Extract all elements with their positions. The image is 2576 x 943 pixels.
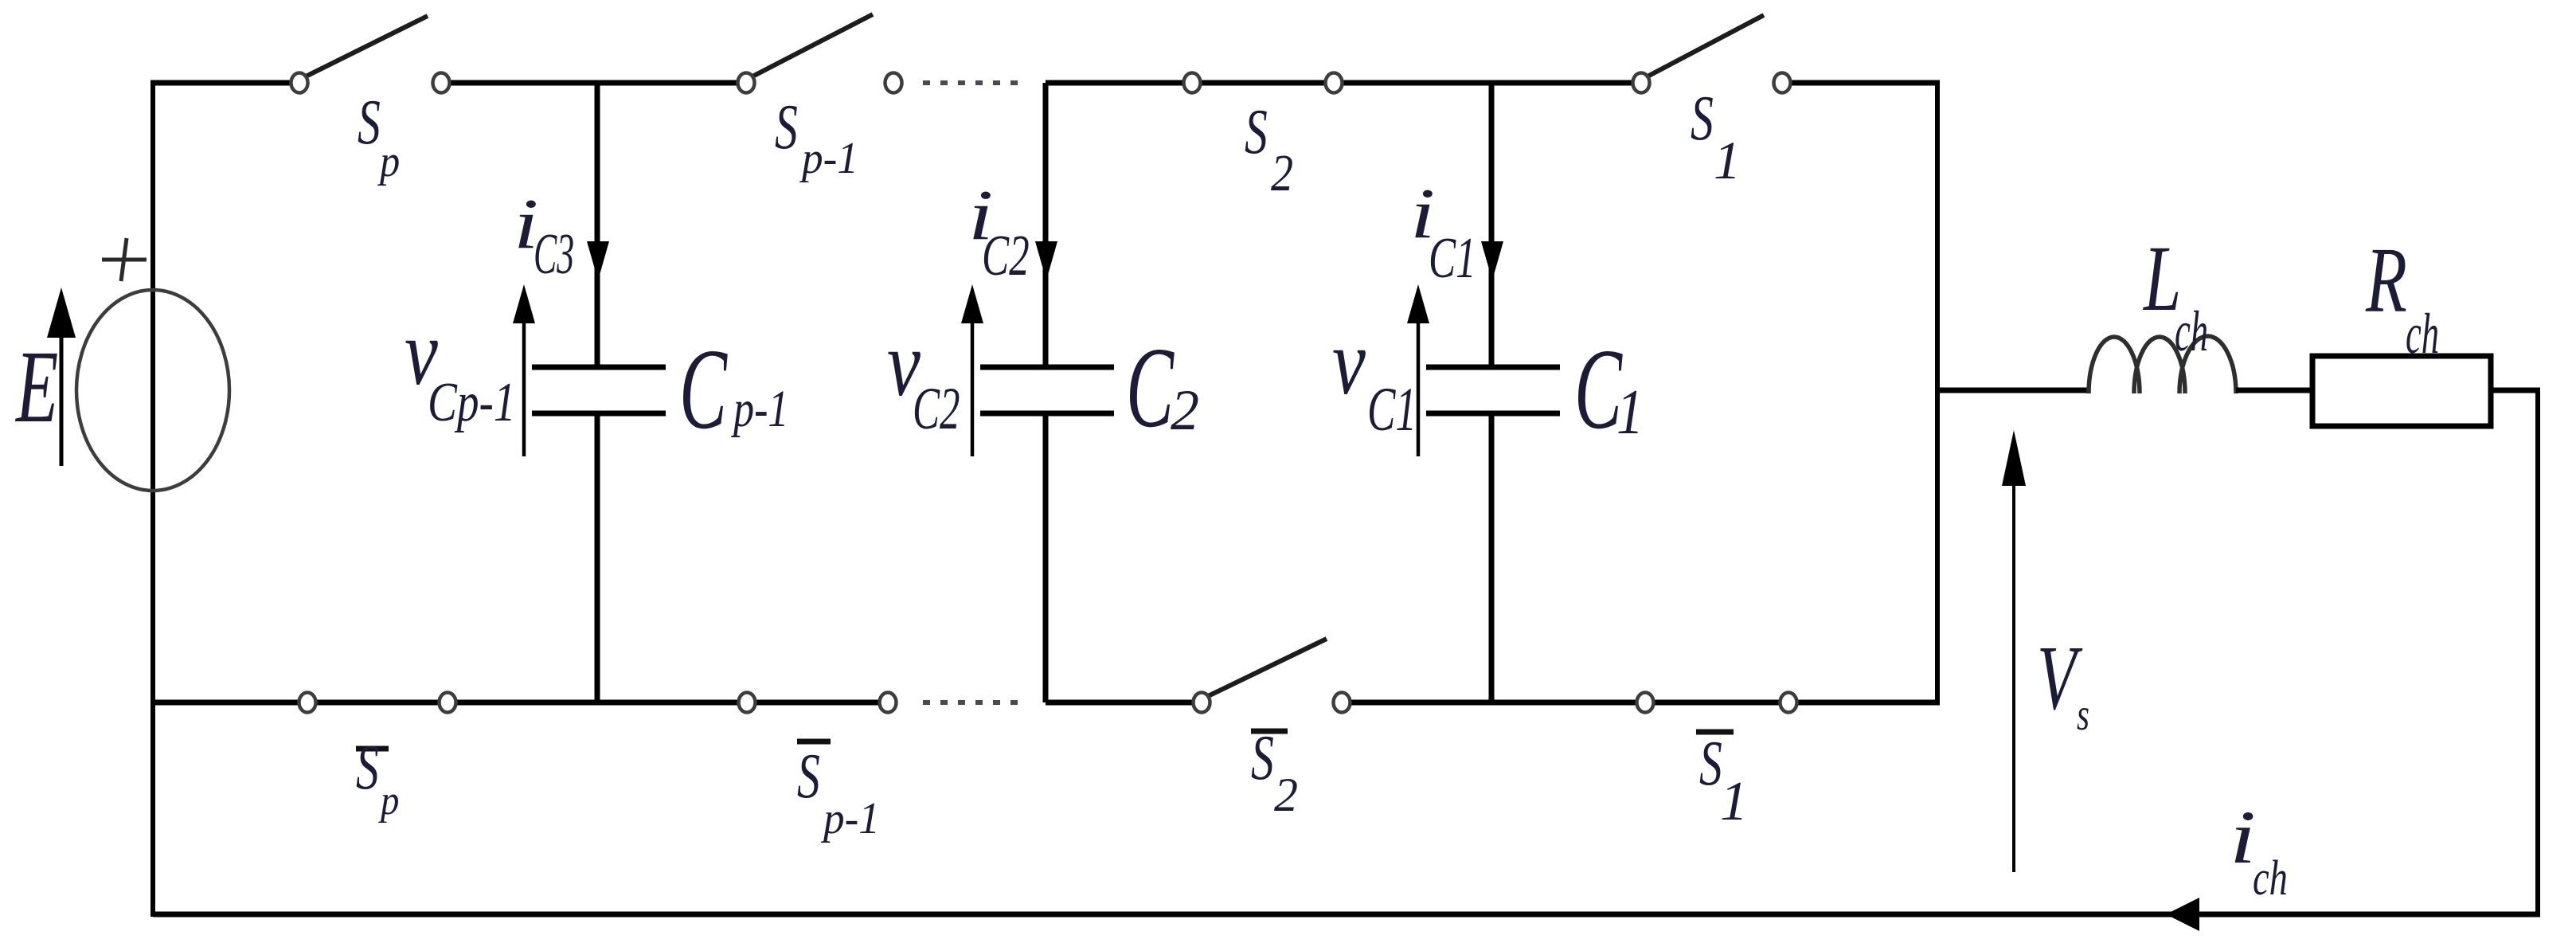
svg-text:Cp-1: Cp-1: [428, 371, 516, 433]
label S2bar (bottom): [1251, 723, 1298, 821]
svg-text:V: V: [2037, 627, 2083, 730]
svg-text:v: v: [1332, 311, 1366, 414]
arrow Vs (output voltage, upward): [2002, 430, 2026, 872]
label Vs: [2037, 627, 2089, 740]
plus sign of source E: [102, 238, 147, 281]
arrow vC2 (capacitor voltage, upward): [961, 284, 983, 456]
switch S2 (top rail): [1184, 73, 1343, 93]
svg-text:S: S: [775, 92, 798, 162]
switch Sp (top rail): [291, 16, 450, 93]
svg-text:1: 1: [1720, 771, 1748, 832]
svg-text:p: p: [377, 137, 400, 186]
label C1: [1574, 327, 1644, 454]
wire right cell edge vertical: [1935, 80, 1940, 705]
wire capacitor Cp-1 branch lower: [595, 413, 600, 702]
capacitor C1 plates: [1426, 367, 1560, 413]
wire top rail segment (Sp to Sp-1): [441, 80, 746, 86]
label Sp-1bar (bottom): [797, 741, 880, 843]
wire capacitor Cp-1 branch upper: [595, 83, 600, 367]
capacitor C2 plates: [980, 367, 1114, 413]
svg-text:ch: ch: [2253, 851, 2288, 906]
wire capacitor C1 branch lower: [1489, 413, 1495, 702]
svg-text:C1: C1: [1429, 225, 1476, 290]
svg-text:S: S: [1699, 729, 1722, 799]
label S2 (top): [1245, 97, 1293, 202]
switch S2bar (bottom rail): [1194, 639, 1351, 713]
svg-text:C: C: [679, 327, 728, 454]
switch Spbar (bottom rail): [299, 693, 456, 713]
svg-text:S: S: [797, 741, 820, 812]
svg-text:R: R: [2365, 229, 2407, 333]
svg-text:C3: C3: [534, 222, 574, 287]
wire inductor to resistor: [2236, 388, 2312, 393]
wire resistor to far right corner: [2491, 388, 2540, 393]
arrow vC1 (capacitor voltage, upward): [1407, 284, 1429, 456]
label Sp-1 (top): [775, 92, 858, 182]
label Sp (top): [358, 88, 400, 186]
svg-text:1: 1: [1616, 378, 1644, 448]
switch Sp-1bar (bottom rail): [739, 693, 897, 713]
label E: [14, 329, 58, 444]
label Cp-1: [679, 327, 789, 454]
arrow vCp-1 (capacitor voltage, upward): [513, 284, 535, 456]
wire capacitor C2 branch upper: [1043, 83, 1049, 367]
svg-text:E: E: [14, 329, 58, 444]
svg-text:S: S: [356, 733, 379, 803]
label Rch: [2365, 229, 2439, 366]
label ich: [2230, 796, 2288, 906]
label vCp-1: [405, 301, 516, 432]
svg-text:C: C: [1574, 327, 1623, 454]
svg-text:2: 2: [1271, 144, 1293, 202]
wire bottom rail segment (S2bar to right corner): [1342, 700, 1940, 706]
svg-text:s: s: [2077, 690, 2089, 740]
wire capacitor C2 branch lower: [1043, 413, 1049, 702]
svg-text:ch: ch: [2175, 299, 2208, 362]
wire bottom rail dotted continuation: [923, 700, 1022, 705]
label iC2: [968, 175, 1030, 288]
svg-text:p-1: p-1: [820, 793, 880, 843]
label S1bar (bottom): [1696, 729, 1748, 832]
label iC3: [514, 184, 574, 286]
label vC1: [1332, 311, 1417, 444]
voltage source E (ellipse): [76, 290, 229, 491]
arrow iC2 (branch current, downward): [1035, 241, 1057, 280]
switch Sp-1 (top rail): [738, 14, 902, 93]
svg-text:p-1: p-1: [730, 379, 788, 437]
svg-text:i: i: [2230, 796, 2256, 879]
svg-text:2: 2: [1171, 378, 1199, 442]
arrow iC1 (branch current, downward): [1481, 241, 1503, 280]
svg-text:S: S: [1691, 84, 1714, 154]
wire output node to inductor: [1937, 388, 2089, 393]
label C2: [1126, 325, 1199, 452]
switch S1 (top rail): [1633, 15, 1791, 93]
label Lch: [2142, 227, 2208, 363]
wire top rail segment (C2 cell to S1): [1046, 80, 1641, 86]
inductor Lch: [2089, 336, 2236, 393]
resistor Rch: [2312, 356, 2491, 426]
svg-text:C: C: [1126, 325, 1175, 452]
wire top rail segment (E to Sp): [150, 80, 299, 86]
label iC1: [1410, 174, 1476, 290]
wire bottom rail segment (C2 cell to S2bar): [1046, 700, 1202, 706]
wire left edge vertical: [150, 80, 155, 917]
svg-text:ch: ch: [2406, 302, 2439, 365]
svg-text:1: 1: [1714, 130, 1741, 190]
svg-text:p-1: p-1: [799, 133, 858, 183]
wire top rail segment (S1 to right corner): [1782, 80, 1940, 86]
svg-text:S: S: [1251, 723, 1274, 793]
wire top rail dotted continuation: [923, 80, 1018, 85]
svg-text:C2: C2: [913, 375, 960, 441]
wire bottom rail segment (left): [150, 700, 888, 706]
svg-text:C1: C1: [1367, 376, 1417, 444]
wire outer bottom: [153, 912, 2540, 918]
svg-text:p: p: [378, 777, 399, 824]
svg-text:S: S: [358, 88, 381, 158]
label Spbar (bottom): [356, 733, 399, 824]
capacitor Cp-1 plates: [532, 367, 666, 413]
arrow iCp-1 (branch current, downward): [587, 241, 609, 280]
svg-text:S: S: [1245, 97, 1268, 167]
wire capacitor C1 branch upper: [1489, 83, 1495, 367]
label vC2: [887, 312, 960, 441]
svg-text:C2: C2: [982, 223, 1030, 288]
label S1 (top): [1691, 84, 1741, 190]
wire far right edge vertical: [2535, 390, 2540, 914]
svg-text:2: 2: [1274, 769, 1298, 821]
arrow E (source voltage arrow): [47, 288, 76, 466]
arrow ich (load current, leftward on bottom wire): [2166, 898, 2199, 931]
switch S1bar (bottom rail): [1637, 693, 1797, 713]
